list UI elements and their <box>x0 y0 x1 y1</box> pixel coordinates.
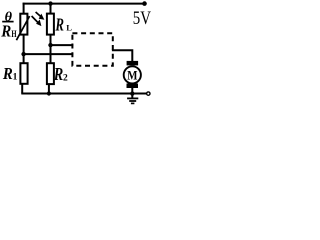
svg-text:H: H <box>11 30 17 40</box>
svg-text:R: R <box>53 64 63 84</box>
svg-text:1: 1 <box>13 73 18 83</box>
svg-text:2: 2 <box>63 74 68 84</box>
svg-text:L: L <box>66 23 72 33</box>
svg-text:R: R <box>55 14 64 34</box>
svg-text:R: R <box>2 64 13 83</box>
svg-text:R: R <box>0 22 11 41</box>
svg-text:5V: 5V <box>133 9 152 29</box>
svg-text:M: M <box>127 69 137 83</box>
